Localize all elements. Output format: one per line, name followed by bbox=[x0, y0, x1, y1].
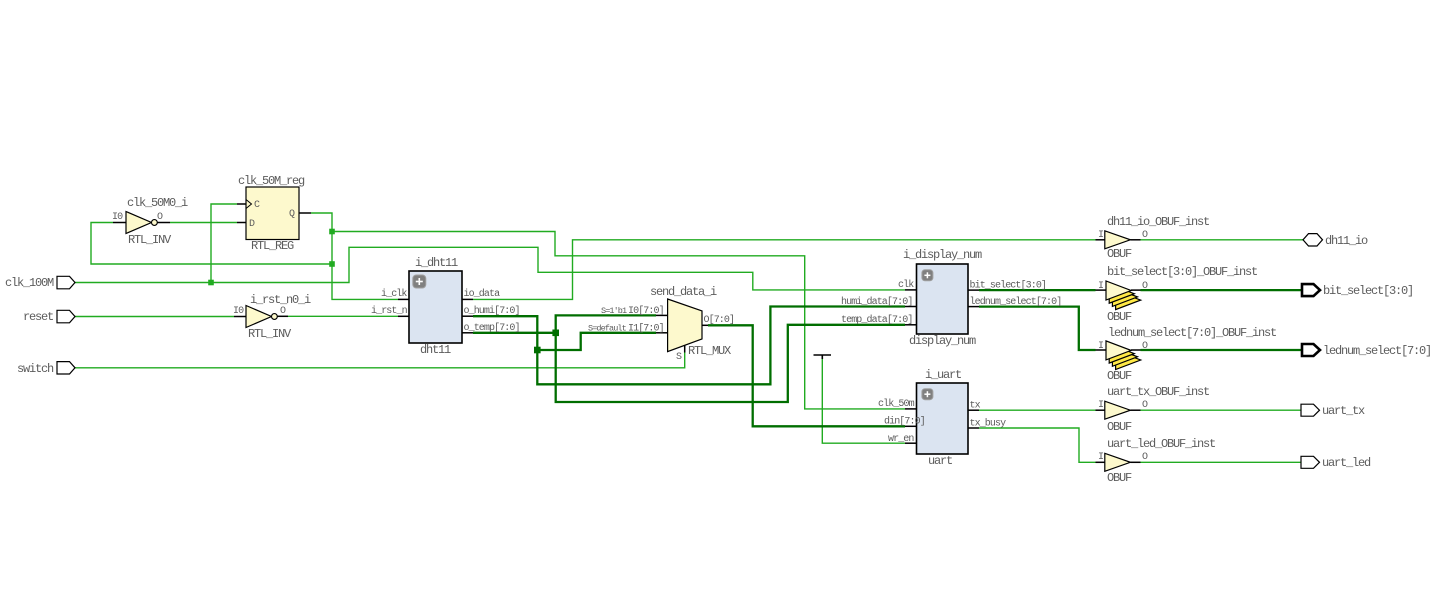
stub obuf lednum in bbox=[1096, 349, 1107, 351]
svg-text:uart_led: uart_led bbox=[1322, 456, 1371, 470]
stub obuf dh11_io out bbox=[1130, 239, 1140, 241]
stub inv1 in bbox=[113, 222, 126, 224]
stub dht11 o_humi bbox=[462, 315, 473, 317]
svg-text:dh11_io_OBUF_inst: dh11_io_OBUF_inst bbox=[1107, 215, 1209, 229]
svg-text:I: I bbox=[1098, 400, 1103, 411]
svg-text:clk_50m: clk_50m bbox=[878, 398, 915, 410]
svg-text:tx: tx bbox=[970, 401, 981, 412]
obuf uart_tx_OBUF_inst bbox=[1098, 385, 1209, 434]
svg-text:o_humi[7:0]: o_humi[7:0] bbox=[464, 305, 520, 317]
wire temp bus to display bbox=[556, 325, 905, 402]
svg-text:O: O bbox=[1142, 230, 1148, 241]
svg-text:I: I bbox=[1098, 281, 1103, 292]
svg-text:uart: uart bbox=[928, 454, 952, 468]
svg-text:D: D bbox=[249, 219, 255, 230]
stub inv1 out bbox=[157, 222, 170, 224]
stub uart tx bbox=[968, 409, 979, 411]
wire humi bus to display bbox=[537, 307, 905, 385]
stub obuf uart_led out bbox=[1130, 461, 1140, 463]
svg-text:clk: clk bbox=[898, 279, 914, 291]
svg-text:RTL_REG: RTL_REG bbox=[251, 239, 294, 253]
svg-text:i_display_num: i_display_num bbox=[903, 248, 982, 262]
svg-text:tx_busy: tx_busy bbox=[970, 418, 1007, 430]
junction humi bus bbox=[534, 347, 541, 354]
stub uart din bbox=[905, 425, 917, 427]
wire rst_n out bbox=[288, 315, 398, 317]
stub display temp_data bbox=[905, 324, 917, 326]
wire temp bus to mux I0 bbox=[556, 315, 656, 332]
stub uart wr_en bbox=[905, 442, 917, 444]
svg-text:S=default: S=default bbox=[588, 324, 627, 334]
wire clk_50M feedback branch bbox=[91, 223, 332, 265]
wire uart_tx OBUF to port bbox=[1141, 409, 1302, 411]
stub display lednum_select bbox=[968, 306, 979, 308]
svg-text:i_rst_n: i_rst_n bbox=[371, 305, 408, 317]
stub display humi_data bbox=[905, 306, 917, 308]
svg-text:clk_50M0_i: clk_50M0_i bbox=[127, 196, 188, 210]
block i_uart bbox=[878, 368, 1006, 468]
stub mux I1 bbox=[656, 332, 668, 334]
stub reg Q bbox=[299, 212, 311, 214]
svg-text:O: O bbox=[1142, 341, 1148, 352]
svg-text:i_clk: i_clk bbox=[381, 288, 407, 300]
mux send_data_i bbox=[588, 285, 734, 363]
svg-text:lednum_select[7:0]_OBUF_inst: lednum_select[7:0]_OBUF_inst bbox=[1108, 326, 1276, 340]
svg-text:i_uart: i_uart bbox=[925, 368, 961, 382]
stub dht11 o_temp bbox=[462, 332, 473, 334]
svg-text:O: O bbox=[1142, 281, 1148, 292]
svg-text:i_rst_n0_i: i_rst_n0_i bbox=[250, 293, 311, 307]
wire lednum_select OBUF to port bbox=[1141, 349, 1302, 351]
stub obuf bit_select out bbox=[1131, 289, 1141, 291]
stub obuf uart_led in bbox=[1096, 461, 1107, 463]
wire reset net bbox=[75, 316, 234, 318]
port bit_select bbox=[1302, 284, 1413, 298]
wire mux O to uart din bbox=[708, 325, 905, 426]
junction clk_50M feedback bbox=[329, 261, 335, 267]
svg-text:display_num: display_num bbox=[909, 334, 976, 348]
stub uart clk_50m bbox=[905, 408, 917, 410]
stub inv2 in bbox=[234, 316, 246, 318]
svg-text:I1[7:0]: I1[7:0] bbox=[628, 323, 664, 335]
stub obuf uart_tx in bbox=[1096, 409, 1107, 411]
svg-text:bit_select[3:0]_OBUF_inst: bit_select[3:0]_OBUF_inst bbox=[1107, 265, 1257, 279]
wire tx_busy to uart_led OBUF bbox=[979, 428, 1096, 462]
obuf lednum_select[7:0]_OBUF_inst bbox=[1098, 326, 1276, 383]
junction temp bus bbox=[552, 330, 559, 337]
svg-text:clk_50M_reg: clk_50M_reg bbox=[238, 174, 305, 188]
wire dh11_io OBUF to port bbox=[1141, 239, 1304, 241]
svg-text:uart_tx: uart_tx bbox=[1322, 404, 1365, 418]
constant tick for wr_en bbox=[814, 355, 832, 359]
obuf dh11_io_OBUF_inst bbox=[1098, 215, 1209, 261]
svg-text:OBUF: OBUF bbox=[1107, 247, 1132, 261]
svg-text:I0: I0 bbox=[233, 306, 244, 317]
svg-text:uart_led_OBUF_inst: uart_led_OBUF_inst bbox=[1107, 437, 1215, 451]
svg-text:RTL_INV: RTL_INV bbox=[128, 233, 172, 247]
stub mux O bbox=[702, 324, 708, 326]
stub dht11 i_rst_n bbox=[398, 315, 409, 317]
svg-text:O: O bbox=[157, 212, 163, 223]
junction clk_100M / C bbox=[208, 280, 214, 286]
svg-text:wr_en: wr_en bbox=[888, 434, 914, 445]
wire temp bus bbox=[473, 332, 556, 334]
wire uart tx bbox=[979, 409, 1096, 411]
wire clk_100M to C pin bbox=[211, 204, 237, 283]
port switch bbox=[17, 362, 75, 376]
port clk_100M bbox=[5, 276, 75, 290]
svg-text:bit_select[3:0]: bit_select[3:0] bbox=[1323, 284, 1413, 298]
obuf bit_select[3:0]_OBUF_inst bbox=[1098, 265, 1257, 324]
stub dht11 io_data bbox=[462, 298, 473, 300]
svg-text:send_data_i: send_data_i bbox=[650, 285, 717, 299]
svg-text:lednum_select[7:0]: lednum_select[7:0] bbox=[1323, 344, 1431, 358]
svg-text:S: S bbox=[676, 352, 682, 363]
svg-text:I: I bbox=[1098, 230, 1103, 241]
svg-text:switch: switch bbox=[17, 362, 54, 376]
stub display clk bbox=[905, 289, 917, 291]
stub obuf bit_select in bbox=[1096, 289, 1107, 291]
svg-text:din[7:0]: din[7:0] bbox=[884, 416, 925, 428]
svg-text:I: I bbox=[1098, 341, 1103, 352]
wire uart_led OBUF to port bbox=[1141, 461, 1302, 463]
wire clk_100M net bbox=[75, 247, 905, 290]
svg-text:OBUF: OBUF bbox=[1107, 420, 1132, 434]
block i_dht11 bbox=[371, 256, 520, 357]
svg-text:dh11_io: dh11_io bbox=[1325, 234, 1368, 248]
register clk_50M_reg bbox=[238, 174, 305, 253]
stub reg C bbox=[237, 203, 246, 205]
stub obuf uart_tx out bbox=[1130, 409, 1140, 411]
wire humi bus bbox=[473, 316, 537, 350]
port dh11_io bbox=[1303, 234, 1368, 248]
stub display bit_select bbox=[968, 289, 979, 291]
wire clk_50M Q net bbox=[311, 213, 398, 299]
wire io_data to dh11_io OBUF bbox=[473, 240, 1096, 300]
svg-text:OBUF: OBUF bbox=[1107, 369, 1132, 383]
stub mux S bbox=[684, 345, 686, 353]
stub obuf lednum out bbox=[1131, 349, 1141, 351]
svg-text:RTL_MUX: RTL_MUX bbox=[688, 344, 731, 358]
port uart_led bbox=[1301, 456, 1371, 470]
wire inverter1 out to D bbox=[170, 222, 237, 224]
port lednum_select bbox=[1302, 344, 1431, 358]
svg-text:RTL_INV: RTL_INV bbox=[248, 327, 292, 341]
svg-text:I0[7:0]: I0[7:0] bbox=[628, 305, 664, 317]
wire bit_select OBUF to port bbox=[1141, 289, 1302, 291]
svg-text:O: O bbox=[280, 306, 286, 317]
svg-text:reset: reset bbox=[23, 310, 53, 324]
wire lednum_select bus bbox=[979, 307, 1096, 350]
stub dht11 i_clk bbox=[398, 298, 409, 300]
svg-text:dht11: dht11 bbox=[420, 343, 451, 357]
wire const to wr_en bbox=[822, 358, 905, 443]
svg-text:OBUF: OBUF bbox=[1107, 471, 1132, 485]
wire bit_select bus bbox=[979, 289, 1096, 291]
svg-text:temp_data[7:0]: temp_data[7:0] bbox=[841, 314, 912, 326]
svg-text:io_data: io_data bbox=[464, 288, 501, 300]
svg-text:OBUF: OBUF bbox=[1107, 310, 1132, 324]
svg-text:clk_100M: clk_100M bbox=[5, 276, 54, 290]
wire clk_50M to uart branch bbox=[332, 232, 905, 409]
svg-text:I0: I0 bbox=[112, 212, 123, 223]
block i_display_num bbox=[841, 248, 1061, 348]
svg-text:o_temp[7:0]: o_temp[7:0] bbox=[464, 322, 520, 334]
wire humi bus to mux I1 bbox=[537, 333, 656, 350]
wire switch to mux S bbox=[75, 353, 685, 368]
svg-text:O: O bbox=[1142, 400, 1148, 411]
stub obuf dh11_io in bbox=[1096, 239, 1107, 241]
stub uart tx_busy bbox=[968, 427, 979, 429]
svg-text:S=1'b1: S=1'b1 bbox=[601, 306, 627, 316]
svg-text:O[7:0]: O[7:0] bbox=[704, 314, 735, 326]
stub mux I0 bbox=[656, 314, 668, 316]
junction clk_50M branch1 bbox=[329, 229, 335, 235]
svg-text:I: I bbox=[1098, 452, 1103, 463]
inverter clk_50M0_i bbox=[112, 196, 188, 247]
inverter i_rst_n0_i bbox=[233, 293, 311, 341]
svg-text:bit_select[3:0]: bit_select[3:0] bbox=[970, 280, 1047, 292]
svg-text:humi_data[7:0]: humi_data[7:0] bbox=[841, 296, 912, 308]
port reset bbox=[23, 310, 75, 324]
obuf uart_led_OBUF_inst bbox=[1098, 437, 1215, 485]
stub reg D bbox=[237, 222, 246, 224]
svg-text:C: C bbox=[254, 200, 260, 211]
svg-text:uart_tx_OBUF_inst: uart_tx_OBUF_inst bbox=[1107, 385, 1209, 399]
svg-text:Q: Q bbox=[289, 209, 295, 220]
stub inv2 out bbox=[276, 315, 288, 317]
PIN STUBS bbox=[113, 204, 1141, 462]
svg-text:lednum_select[7:0]: lednum_select[7:0] bbox=[970, 296, 1062, 308]
svg-text:O: O bbox=[1142, 452, 1148, 463]
svg-text:i_dht11: i_dht11 bbox=[415, 256, 458, 270]
port uart_tx bbox=[1301, 404, 1365, 418]
